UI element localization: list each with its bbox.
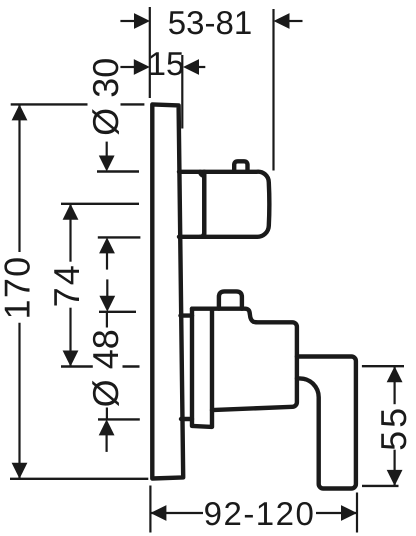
tick Ø30 bottom (cylinder bottom) xyxy=(98,236,141,238)
svg-text:55: 55 xyxy=(373,405,414,451)
extension line right of 15 xyxy=(181,55,183,129)
thermostat handle back edge xyxy=(202,172,206,237)
tick bottom of 74 (valve axis, right of Ø48 text) xyxy=(123,365,140,367)
dim 170 bottom arrow xyxy=(12,463,28,479)
dim 74 top arrow xyxy=(63,204,79,220)
dim Ø48 upper arrow (points down to sleeve top) xyxy=(106,279,108,297)
svg-text:Ø 30: Ø 30 xyxy=(85,58,126,136)
sleeve notch top xyxy=(200,172,204,176)
dim 53-81 right arrow xyxy=(288,20,303,22)
extension line bottom left of 92-120 xyxy=(149,486,151,533)
dim 92-120 left arrow xyxy=(150,505,166,521)
svg-text:74: 74 xyxy=(46,263,87,307)
extension line left of 53-81 and 15 xyxy=(149,7,151,98)
dim 74 line lower xyxy=(69,308,71,367)
volume control: lower connector plate-to-sleeve xyxy=(181,417,192,421)
wall plate (escutcheon side profile) xyxy=(152,104,183,478)
dim 55 line upper xyxy=(394,366,396,404)
dim Ø30 upper arrow (points down to cylinder top) xyxy=(106,142,108,157)
volume control stop button xyxy=(219,291,242,308)
dim 55 top arrow xyxy=(387,366,403,382)
svg-text:15: 15 xyxy=(148,45,185,82)
volume control: upper connector plate-to-sleeve xyxy=(181,313,193,317)
tick Ø48 bottom xyxy=(98,418,140,420)
dim 53-81 left arrow xyxy=(120,20,136,22)
tick top of 55 xyxy=(362,365,404,367)
dim 55 label xyxy=(373,405,414,451)
dim 170 line lower xyxy=(18,323,20,479)
svg-text:Ø 48: Ø 48 xyxy=(85,329,126,407)
dim 74 bottom arrow xyxy=(63,351,79,367)
tick Ø30 top (cylinder top) xyxy=(97,170,139,172)
lever handle xyxy=(297,357,356,489)
dim Ø48 stub above bottom tick xyxy=(106,408,108,420)
dim 15 left arrow xyxy=(120,66,135,68)
svg-text:92-120: 92-120 xyxy=(204,495,316,532)
tick top of 170 (right of Ø30 text) xyxy=(121,103,145,105)
extension line bottom right of 92-120 xyxy=(356,493,358,533)
sleeve notch bottom xyxy=(200,233,204,237)
svg-text:53-81: 53-81 xyxy=(168,4,252,41)
thermostat sleeve bottom edge xyxy=(179,235,204,239)
dim Ø48 label xyxy=(85,329,126,407)
dim Ø30 label xyxy=(85,58,126,136)
dim 170 top arrow xyxy=(12,104,28,120)
tick Ø48 top xyxy=(99,311,136,313)
tick bottom of 170 xyxy=(10,478,148,480)
dim 55 bottom arrow xyxy=(387,470,403,486)
thermostat safety button xyxy=(234,161,247,171)
volume control sleeve flange xyxy=(192,309,212,427)
dim 170 line upper xyxy=(18,104,20,252)
extension line right of 53-81 xyxy=(272,9,274,171)
dim 55 line lower xyxy=(394,450,396,486)
volume control body top edge with step xyxy=(192,309,297,410)
tick bottom of 74 (valve axis, left of Ø48 text) xyxy=(61,365,93,367)
dim Ø48 stub below top tick xyxy=(106,312,108,328)
dim 92-120 line right xyxy=(316,512,357,514)
dim 92-120 line left xyxy=(150,512,203,514)
tick top of 170 / plate top (left of Ø30 text) xyxy=(11,103,88,105)
thermostat handle Ø30 xyxy=(204,172,269,237)
tick bottom of 55 xyxy=(362,485,399,487)
dim Ø48 lower arrow (points up to sleeve bottom) xyxy=(99,419,115,435)
tick top of 74 (thermostat axis) xyxy=(61,203,139,205)
dim 92-120 right arrow xyxy=(341,505,357,521)
dim Ø30 lower arrow (points up to cylinder bottom) xyxy=(99,237,115,253)
dim 170 label xyxy=(0,256,37,320)
dim 74 line upper xyxy=(69,204,71,262)
svg-text:170: 170 xyxy=(0,256,37,320)
thermostat sleeve top edge xyxy=(179,170,204,174)
dim 74 label xyxy=(46,263,87,307)
dim 15 right arrow xyxy=(197,66,205,68)
